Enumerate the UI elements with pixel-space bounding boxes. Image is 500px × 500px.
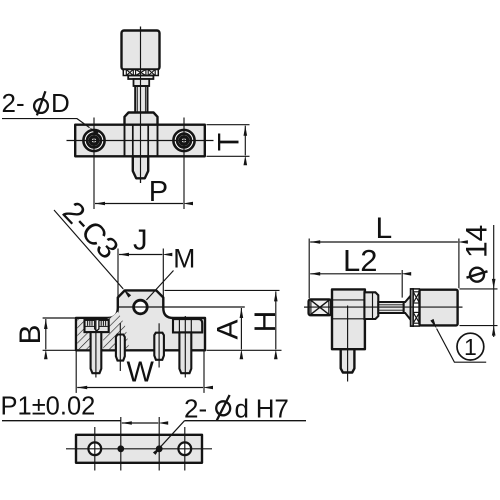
label phi14 (rotated) xyxy=(461,225,494,282)
centerline vertical of knob/shaft xyxy=(140,27,142,184)
hole B3 (dowel, filled) xyxy=(156,445,163,452)
body block (side view) xyxy=(332,289,365,349)
leader M xyxy=(146,271,173,301)
dimension W xyxy=(77,387,203,389)
hex section xyxy=(364,292,378,319)
svg-text:T: T xyxy=(212,133,245,151)
screw shaft (side view) xyxy=(378,302,403,313)
dimension A bottom extension xyxy=(207,349,282,351)
leader 2-phid to hole B3 xyxy=(161,421,185,447)
svg-text:2-: 2- xyxy=(2,88,25,118)
flange disc xyxy=(411,289,414,326)
dimension H xyxy=(275,291,277,349)
svg-text:H: H xyxy=(249,311,282,333)
vertical centerline left hole / P extension xyxy=(93,118,95,210)
plate (top view) xyxy=(75,125,205,157)
leader 2-C3 xyxy=(54,210,123,289)
bottom plate xyxy=(76,435,202,463)
dimension L xyxy=(310,241,458,243)
hole M centerline / A extension xyxy=(118,306,245,308)
svg-text:J: J xyxy=(133,225,148,257)
bottom view horizontal centerline xyxy=(66,448,212,450)
counterbore walls above screw head xyxy=(86,318,88,320)
dimension T extension lines xyxy=(207,124,250,126)
svg-text:P: P xyxy=(149,176,168,208)
step xyxy=(134,79,150,86)
hole B3 centerline xyxy=(158,417,160,471)
screw hole edge lines through plate xyxy=(132,126,134,157)
vertical centerline right hole / P extension xyxy=(183,118,185,210)
hole M xyxy=(134,300,148,314)
clamp pad (square section with X) xyxy=(309,299,332,315)
dimension phi14 line xyxy=(493,225,495,337)
dimension W extension lines xyxy=(75,352,77,393)
dowel pin D1 xyxy=(116,335,125,361)
knurl band (side view) xyxy=(413,289,419,326)
hole right (counterbore, top view) xyxy=(173,130,194,151)
dimension T xyxy=(244,126,246,156)
cap screw C2 head xyxy=(173,319,202,332)
boss edge lines through plate xyxy=(124,126,126,157)
dimension B xyxy=(45,319,47,349)
hatch section right of screw xyxy=(103,312,130,350)
bottom pin (side view) xyxy=(341,349,355,372)
flange below knurl xyxy=(128,76,153,80)
dimension P xyxy=(95,203,183,205)
dimension H top extension xyxy=(165,289,280,291)
dowel pin D2 centerline xyxy=(158,323,160,367)
side view horizontal centerline xyxy=(304,306,463,308)
dowel pin D1 centerline xyxy=(119,323,121,371)
dimension P1 xyxy=(122,422,158,424)
svg-text:L2: L2 xyxy=(343,243,377,278)
hole B2 (dowel, filled) xyxy=(117,445,124,452)
dowel pin D2 xyxy=(154,333,164,360)
cap screw C2 centerline xyxy=(184,316,186,378)
dimension L extension lines xyxy=(308,239,310,299)
dimension A xyxy=(240,308,242,349)
svg-text:L: L xyxy=(376,212,393,245)
svg-text:2-: 2- xyxy=(184,393,207,423)
bottom pin centerline xyxy=(347,306,349,382)
cone flange xyxy=(404,296,411,320)
dimension L2 xyxy=(310,273,401,275)
body step line xyxy=(332,299,365,301)
svg-text:B: B xyxy=(14,324,47,344)
svg-text:A: A xyxy=(212,319,245,339)
underline P1 xyxy=(2,420,121,422)
svg-text:14: 14 xyxy=(461,225,494,258)
svg-text:d H7: d H7 xyxy=(235,393,289,423)
dimension J xyxy=(119,254,162,256)
cap screw C1 head (sectioned) xyxy=(85,320,109,332)
horizontal centerline through holes xyxy=(67,140,214,142)
label 2-phiD xyxy=(2,88,70,118)
hole B1 centerline xyxy=(94,427,96,471)
svg-text:W: W xyxy=(127,357,155,389)
svg-text:M: M xyxy=(173,244,195,274)
dimension L2 extension line xyxy=(401,270,403,298)
knob (top view) xyxy=(122,31,160,70)
leader 2-phiD xyxy=(2,119,90,128)
knob (side view) xyxy=(420,290,458,326)
knurl band (top view) xyxy=(123,70,158,76)
side view centerline overlay xyxy=(304,306,463,308)
hole B2 centerline xyxy=(120,417,122,471)
body plate line xyxy=(332,318,365,320)
cap screw C1 shank xyxy=(91,332,102,373)
dimension B extension lines xyxy=(43,317,76,319)
balloon 1 leader xyxy=(437,329,487,363)
svg-text:1: 1 xyxy=(464,334,477,360)
dimension J extension lines xyxy=(117,249,119,309)
balloon 1 xyxy=(457,333,484,360)
hole B4 xyxy=(178,442,191,455)
hole B4 centerline xyxy=(184,427,186,471)
svg-text:D: D xyxy=(51,88,70,118)
shaft (top view) xyxy=(135,86,147,113)
centerline overlay knob/shaft xyxy=(140,27,142,184)
dimension phi14 extension lines xyxy=(460,288,498,290)
body with hump (front view) xyxy=(76,290,205,350)
svg-text:P1±0.02: P1±0.02 xyxy=(1,392,96,420)
underline 2-phid xyxy=(185,420,307,422)
hole left (counterbore, top view) xyxy=(83,130,104,151)
label 2-phid H7 xyxy=(184,393,289,423)
hatch section left xyxy=(77,319,90,349)
cap screw C2 shank xyxy=(179,332,191,373)
hole B1 xyxy=(88,442,101,455)
cap screw C1 centerline xyxy=(95,318,97,377)
pin below plate (top view) xyxy=(133,156,148,178)
hex boss xyxy=(125,113,158,126)
